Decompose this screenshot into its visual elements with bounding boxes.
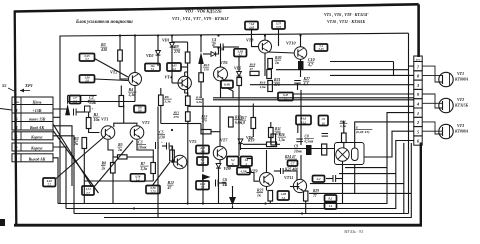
- resistor VD5R: [237, 78, 242, 86]
- test point box left of C6: [196, 181, 209, 190]
- wire: VD6 bottom lead: [240, 144, 242, 150]
- transistor VT5: [173, 155, 187, 169]
- svg-text:ХР1: ХР1: [24, 83, 33, 88]
- wire: C11 down: [298, 83, 302, 145]
- wire: C12 leads: [326, 178, 343, 180]
- capacitor C11 plates: [294, 81, 301, 84]
- text: VD1: [162, 38, 170, 43]
- wire: arrow to XP1: [20, 89, 30, 93]
- text: C5 130: [159, 131, 166, 140]
- wire: diagonal callout b: [53, 131, 99, 194]
- wire: to pin3: [250, 84, 414, 86]
- wire: diagonal callout c: [94, 141, 133, 188]
- connector XP1 row pin2 Корпус: [12, 143, 53, 151]
- wire: VT6 emitter: [220, 81, 222, 98]
- test point box out c: [325, 203, 337, 210]
- text: R1 10к: [93, 112, 101, 122]
- svg-text:47: 47: [249, 67, 254, 71]
- capacitor C3 electrolytic arrow: [198, 36, 204, 65]
- test point box VT10: [315, 44, 328, 51]
- svg-text:7,75: 7,75: [276, 25, 282, 29]
- wire: VT9 emitter: [267, 187, 271, 204]
- wire: marker tick: [8, 88, 14, 91]
- wire: VT1/VT3 collector bracket: [114, 105, 137, 127]
- resistor R31: [342, 133, 347, 143]
- diode VD3: [211, 52, 216, 57]
- svg-text:7,7: 7,7: [47, 183, 51, 187]
- test point box VT6: [221, 81, 233, 89]
- capacitor C6 plates: [216, 180, 219, 187]
- svg-text:R6: R6: [165, 95, 169, 99]
- text: VT2 КТ315Б: [454, 97, 469, 108]
- transistor VT4: [178, 76, 191, 89]
- wire: upper right link: [276, 69, 409, 71]
- resistor R26b: [271, 134, 276, 145]
- wire: C5 to VT5 base: [169, 146, 177, 162]
- diode VD9: [216, 164, 221, 169]
- wire: R6b leads: [161, 88, 188, 124]
- svg-text:47: 47: [211, 43, 216, 47]
- wire: pin2 ground drop: [53, 147, 66, 209]
- wire: VT9 collector: [266, 150, 268, 173]
- connector XP1 row pin6 минус 15В: [12, 116, 53, 121]
- wire: outer frame top border: [14, 4, 419, 11]
- svg-text:ХР2: ХР2: [415, 58, 421, 61]
- text: R18 47: [249, 63, 256, 72]
- resistor R1: [86, 118, 91, 129]
- capacitor C9 electrolytic: [306, 145, 312, 155]
- text: VT5,VT6,VT8 КТ315Г: [324, 12, 369, 17]
- wire: VT1 emitter to R8: [108, 140, 113, 163]
- resistor R8: [111, 163, 116, 174]
- capacitor C12v plates: [322, 134, 329, 137]
- text: R20 1к: [275, 56, 282, 65]
- text: R22 470: [274, 127, 281, 136]
- svg-text:0,6: 0,6: [138, 109, 142, 113]
- resistor R19: [267, 142, 277, 147]
- resistor R6b: [159, 95, 164, 106]
- text: C4 47: [211, 38, 216, 47]
- svg-text:4,65: 4,65: [248, 26, 255, 30]
- transistor VT1 (external): [422, 66, 453, 87]
- svg-text:VТ1: VТ1: [101, 117, 108, 122]
- text: lamp label: [355, 126, 372, 135]
- text: VT4: [165, 75, 172, 80]
- svg-text:1,2: 1,2: [172, 67, 176, 71]
- capacitor C3 plates: [156, 141, 164, 150]
- svg-text:R21: R21: [274, 78, 280, 82]
- svg-text:3,3к: 3,3к: [128, 93, 137, 97]
- svg-text:R4: R4: [129, 88, 134, 92]
- resistor R10: [186, 96, 191, 106]
- svg-text:R8: R8: [102, 162, 107, 166]
- svg-text:МГ43ь - 93: МГ43ь - 93: [343, 229, 363, 234]
- svg-text:470: 470: [273, 83, 280, 87]
- svg-text:R16: R16: [260, 81, 266, 85]
- svg-text:С9: С9: [294, 145, 298, 149]
- resistor R21: [268, 81, 273, 92]
- svg-text:Корпус: Корпус: [30, 147, 43, 151]
- svg-text:R13: R13: [204, 63, 210, 67]
- transistor VT11: [293, 179, 306, 192]
- test point box VT6b: [234, 49, 247, 57]
- wire: VT4 emitter link: [185, 90, 188, 96]
- transistor VT3: [130, 126, 144, 140]
- connector XP2 pin strip: [414, 56, 422, 145]
- svg-text:2,2: 2,2: [316, 177, 321, 181]
- wire: bottom bus 2: [66, 141, 414, 209]
- test point box out a: [278, 191, 290, 200]
- wire: R7 bottom: [84, 174, 153, 182]
- resistor R22: [269, 128, 274, 138]
- text: VT3: [142, 120, 149, 125]
- svg-text:270: 270: [201, 119, 208, 123]
- svg-text:10мк: 10мк: [294, 149, 302, 153]
- wire: R3 to VT2 base: [120, 61, 129, 79]
- wire: VT2 emitter down: [134, 86, 136, 102]
- svg-text:Кон: Кон: [13, 101, 19, 104]
- resistor R17: [251, 118, 256, 129]
- test point box tail b: [82, 186, 94, 195]
- svg-text:R29: R29: [313, 189, 319, 193]
- wire: R22 leads: [270, 122, 272, 144]
- wire: +15V feed from pin3: [53, 109, 68, 115]
- diode VD6: [238, 139, 243, 144]
- wire: VT8 emitter down: [264, 53, 266, 76]
- svg-text:1,2: 1,2: [201, 161, 205, 165]
- diode VD2: [156, 51, 161, 56]
- transistor VT8: [259, 40, 272, 53]
- transistor VT2 (external): [422, 94, 453, 113]
- wire: lower link 2: [339, 173, 396, 175]
- svg-text:VТ7: VТ7: [220, 138, 228, 143]
- wire: R9 top: [172, 42, 188, 52]
- text: R27 4,3: [303, 77, 312, 86]
- test point box VT4 base: [167, 63, 181, 71]
- text: XP1: [24, 83, 33, 88]
- text: R29 77: [313, 189, 320, 198]
- capacitor C12 plates: [281, 168, 284, 174]
- svg-text:С3: С3: [138, 141, 143, 145]
- wire: +15V top rail: [60, 33, 409, 36]
- svg-text:7,7: 7,7: [284, 97, 288, 101]
- wire: R31 top: [343, 122, 345, 133]
- svg-text:1,5к: 1,5к: [340, 124, 346, 128]
- test point box VT2 emitter: [80, 75, 95, 83]
- text: R24 47: [284, 155, 297, 159]
- connector XP1 row pin3 +15В: [12, 108, 53, 113]
- capacitor C5 plates: [167, 143, 170, 150]
- text: VT1 КТ808А: [454, 71, 469, 82]
- svg-text:+: +: [92, 107, 94, 111]
- resistor R13: [199, 73, 204, 82]
- test point box C7b: [288, 161, 298, 167]
- text: R4 3,3к: [128, 88, 137, 97]
- wire: VT10 emitter: [300, 59, 302, 61]
- svg-text:4,3: 4,3: [303, 82, 309, 86]
- wire: top box b drop: [278, 29, 280, 46]
- text: R11 270: [173, 111, 180, 120]
- svg-text:Вход АК: Вход АК: [29, 126, 44, 130]
- test point box under VD2: [145, 64, 160, 72]
- text: R25 400: [284, 168, 298, 172]
- wire: VT4 collector link: [185, 72, 188, 76]
- lamp enclosure: [335, 143, 365, 165]
- text: VT10: [286, 41, 296, 46]
- text: VT6: [220, 60, 228, 65]
- wire: to pin8: [330, 74, 414, 76]
- wire: outer frame bottom border: [14, 224, 422, 227]
- resistor R7: [151, 163, 156, 174]
- resistor R16v: [267, 70, 272, 79]
- test point box tail a: [43, 178, 56, 187]
- wire: lower link 3: [310, 183, 404, 185]
- svg-text:R11: R11: [174, 111, 180, 115]
- svg-text:R17: R17: [241, 116, 247, 120]
- wire: VT4 base link: [172, 82, 182, 84]
- connector XP1 header row: [12, 99, 53, 104]
- wire: VT10 collector: [300, 36, 302, 47]
- wire: pin7 feed: [409, 65, 414, 67]
- svg-text:VD5: VD5: [234, 67, 241, 71]
- svg-text:9,4Б: 9,4Б: [224, 83, 230, 87]
- svg-text:1,5к: 1,5к: [279, 138, 285, 142]
- wire: VD5 chain: [238, 57, 240, 157]
- wire: tail a callout: [56, 136, 106, 179]
- wire: to pin9: [294, 93, 414, 95]
- wire: VT3 emitter to R7: [137, 140, 153, 163]
- text: C8 0,5мк: [304, 135, 314, 144]
- svg-text:минус 15В: минус 15В: [28, 117, 46, 121]
- svg-text:(0,28-Т3): (0,28-Т3): [356, 130, 370, 134]
- test point box mid a: [227, 157, 239, 167]
- svg-text:R26: R26: [279, 133, 285, 137]
- wire: VD3 feed: [203, 53, 211, 55]
- svg-text:R12: R12: [168, 181, 174, 185]
- wire: C5 left lead: [162, 145, 167, 147]
- wire: second box elbow: [330, 62, 394, 76]
- svg-text:10к: 10к: [94, 117, 101, 122]
- test point box top b: [272, 21, 285, 29]
- text: VT8: [246, 38, 254, 43]
- transistor VT9: [260, 173, 274, 187]
- svg-text:VD9: VD9: [224, 167, 231, 171]
- test point box lamp left: [296, 116, 311, 125]
- test point box mid c: [237, 168, 250, 175]
- wire: diagonal callout e: [152, 162, 170, 186]
- svg-text:1,2: 1,2: [136, 178, 140, 182]
- wire: lamp bottom: [343, 161, 355, 203]
- wire: VD2 top: [157, 36, 159, 51]
- wire: left rail drop x60: [59, 36, 61, 204]
- capacitor C7 plates: [74, 109, 77, 116]
- resistor R4: [119, 96, 124, 107]
- svg-text:77: 77: [313, 194, 317, 198]
- text: C6 47: [222, 177, 228, 187]
- wire: lower link 4: [309, 192, 411, 194]
- svg-text:1: 1: [15, 156, 17, 161]
- svg-text:+: +: [161, 141, 163, 145]
- text: R21 470: [273, 78, 280, 87]
- wire: lamp top to pin2: [355, 122, 414, 148]
- diode VD1: [170, 43, 175, 48]
- svg-text:150: 150: [204, 68, 210, 72]
- svg-text:4,7: 4,7: [237, 53, 242, 57]
- svg-text:VТ8: VТ8: [246, 38, 254, 43]
- test point box tail d: [131, 174, 146, 182]
- svg-text:270: 270: [173, 49, 180, 54]
- test point box tail c: [146, 186, 160, 194]
- wire: VD2 bottom: [157, 55, 159, 66]
- text: bottom sheet number: [343, 229, 363, 234]
- wire: top box a drop: [251, 30, 253, 42]
- wire: VT11 base lead: [290, 186, 299, 188]
- text: VT9: [250, 169, 258, 174]
- text: R19: [248, 139, 254, 143]
- wire: R4 top: [120, 86, 122, 96]
- text: C3 10мк: [138, 141, 148, 150]
- wire: R3 top: [119, 36, 121, 51]
- wire: diagonal callout a: [53, 124, 92, 187]
- svg-text:VD1 - VD6 КД522Б: VD1 - VD6 КД522Б: [185, 9, 222, 14]
- wire: VT4 box link: [181, 66, 188, 68]
- text: VD3: [217, 48, 224, 52]
- wire: VT8 base feed: [252, 41, 259, 47]
- text: R31 1,5к: [340, 120, 348, 129]
- transistor VT7: [213, 146, 226, 159]
- wire: VD3 to VT6: [216, 47, 219, 54]
- svg-text:Выход АК: Выход АК: [28, 157, 46, 161]
- text: VD5: [234, 67, 241, 71]
- wire: mid rail y101.5: [68, 101, 135, 103]
- test point box VT11: [313, 176, 325, 183]
- text: C9 10мк: [294, 145, 303, 154]
- wire: R8 bottom: [112, 173, 114, 204]
- resistor R3: [118, 50, 123, 61]
- resistor R5: [118, 155, 128, 159]
- wire: pin1 output drop: [53, 158, 58, 204]
- svg-text:1,6к: 1,6к: [260, 85, 266, 89]
- svg-text:R14: R14: [202, 114, 208, 118]
- wire: R14h leads: [188, 124, 220, 132]
- test point box top a: [245, 22, 258, 30]
- resistor R9: [185, 52, 190, 63]
- wire: outer frame right border upper segment: [417, 4, 420, 57]
- svg-text:С5: С5: [159, 131, 164, 135]
- text: VT7: [220, 138, 228, 143]
- svg-text:R11: R11: [275, 127, 281, 131]
- transistor VT6: [214, 67, 228, 81]
- svg-text:7,75: 7,75: [150, 190, 156, 194]
- svg-text:VT5 , VT6 , VT8 - КТ315Г: VT5 , VT6 , VT8 - КТ315Г: [324, 12, 369, 17]
- svg-text:VТ3: VТ3: [457, 123, 464, 128]
- ground arrow: [229, 186, 236, 209]
- wire: C6 right lead: [218, 183, 226, 186]
- wire: C3 arrow bottom: [200, 64, 202, 98]
- wire: inner box right edge: [408, 33, 410, 213]
- resistor R17b: [229, 117, 234, 127]
- resistor R11: [186, 112, 191, 122]
- wire: lower link 1: [345, 167, 387, 169]
- resistor R18: [250, 71, 259, 75]
- resistor R12: [170, 150, 175, 161]
- svg-text:Блок усилителя мощности: Блок усилителя мощности: [75, 20, 133, 25]
- capacitor C2 electrolytic: [85, 106, 94, 112]
- wire: VT11 collector: [300, 155, 302, 180]
- svg-text:R19: R19: [248, 139, 254, 143]
- wire: VT8 collector: [264, 36, 266, 41]
- wire: R10 chain: [187, 105, 189, 108]
- wire: output bus pair: [188, 98, 414, 107]
- text: VT5: [189, 139, 196, 144]
- resistor R23: [268, 191, 273, 202]
- svg-text:7,1: 7,1: [151, 67, 155, 71]
- wire: VT11 emitter: [304, 191, 306, 214]
- text: 55 marker: [2, 83, 7, 88]
- text: R14 270: [201, 114, 208, 123]
- svg-text:270: 270: [173, 115, 180, 119]
- svg-text:Цепь: Цепь: [32, 99, 42, 104]
- svg-text:КТ315Б: КТ315Б: [454, 104, 469, 108]
- text: R26 1,5к: [278, 133, 286, 142]
- wire: R5 leads: [113, 156, 153, 158]
- wire: bottom bus 1: [58, 113, 414, 204]
- text: R10 3,3к: [195, 96, 203, 105]
- wire: VD1 chain: [171, 35, 173, 83]
- test point box out b: [325, 195, 337, 202]
- text: R9 270: [173, 44, 180, 54]
- capacitor C8 plates: [296, 139, 303, 142]
- wire: VT7 emitter drop: [219, 160, 221, 204]
- text: VT1,VT4,VT7,VT9 КТ361Г: [172, 16, 229, 21]
- svg-text:6,8: 6,8: [241, 121, 246, 125]
- text: R3 430: [100, 42, 107, 52]
- wire: R31 to lamp: [343, 143, 345, 149]
- test point box mid right: [278, 93, 293, 101]
- wire: callout to VT2: [95, 59, 129, 78]
- capacitor C7 label: [70, 96, 81, 104]
- wire: bus3 riser: [403, 143, 405, 214]
- svg-text:R23: R23: [257, 189, 263, 193]
- wire: -15V feed from pin6: [53, 116, 60, 118]
- text: R7 2,2к: [140, 162, 149, 171]
- resistor R20: [268, 59, 273, 69]
- svg-text:VТ11: VТ11: [284, 175, 293, 180]
- svg-text:7,7: 7,7: [85, 57, 89, 61]
- text: VT2: [110, 70, 117, 75]
- capacitor C4 plates: [221, 44, 224, 51]
- resistor R2: [82, 138, 87, 149]
- text: VD1-VD6 КД522Б: [185, 9, 222, 14]
- transistor VT1: [101, 126, 115, 140]
- wire: VT6 bias branch: [227, 88, 233, 98]
- text: R12 47: [167, 181, 174, 190]
- svg-text:VТ2: VТ2: [110, 70, 117, 75]
- capacitor C1 electrolytic arrow: [65, 95, 70, 115]
- capacitor C10 electrolytic: [298, 61, 304, 70]
- svg-text:VD2: VD2: [146, 53, 154, 58]
- svg-text:3,3к: 3,3к: [164, 100, 171, 104]
- svg-text:VТ3: VТ3: [142, 120, 149, 125]
- svg-text:1: 1: [417, 111, 419, 116]
- wire: lamp right to pin5: [364, 131, 414, 157]
- text: VT3 КТ808А: [454, 123, 469, 134]
- wire: outer frame right border lower segment: [420, 143, 422, 227]
- wire: bottom bus 4: [104, 143, 411, 218]
- diode VD5: [237, 72, 242, 77]
- wire: VT9 top link: [274, 171, 297, 180]
- lamp HL1: [336, 148, 349, 161]
